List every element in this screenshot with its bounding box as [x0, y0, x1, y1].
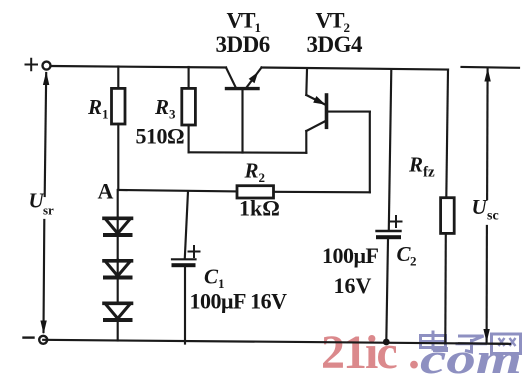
- label R1: [87, 95, 109, 122]
- svg-text:R: R: [154, 95, 169, 119]
- svg-text:3DG4: 3DG4: [307, 32, 364, 57]
- label R2: [244, 159, 266, 186]
- svg-text:sc: sc: [487, 209, 499, 224]
- resistor R2: [237, 186, 274, 198]
- output arrow U_sc: [459, 67, 519, 344]
- svg-text:R: R: [244, 159, 259, 183]
- wire VT2 base to R2: [369, 112, 371, 193]
- input terminal -: [24, 336, 48, 344]
- label Rfz: [408, 153, 435, 181]
- label C1: [204, 265, 225, 292]
- capacitor C2: [376, 70, 401, 343]
- node A: [118, 190, 237, 191]
- svg-text:100μF 16V: 100μF 16V: [190, 289, 288, 314]
- svg-text:sr: sr: [43, 203, 54, 218]
- diode VD2: [104, 260, 132, 303]
- label C2 plus: [391, 216, 402, 227]
- svg-text:U: U: [472, 195, 489, 219]
- diode VD1: [104, 218, 132, 260]
- svg-text:A: A: [98, 179, 114, 204]
- wire bottom rail: [43, 340, 510, 344]
- svg-text:C: C: [204, 265, 219, 289]
- svg-text:16V: 16V: [334, 273, 372, 298]
- transistor VT2: [306, 70, 370, 153]
- svg-text:510Ω: 510Ω: [136, 124, 185, 149]
- capacitor C1: [172, 191, 196, 343]
- svg-text:3: 3: [169, 107, 176, 122]
- resistor Rfz: [441, 70, 455, 344]
- label C2 value: [322, 243, 378, 298]
- wire R2 to VT2 base corner: [274, 191, 370, 194]
- label C2: [397, 242, 417, 269]
- wire R3 bottom to VT2 collector: [189, 151, 307, 154]
- svg-text:2: 2: [410, 254, 417, 269]
- junction C2 bottom: [383, 339, 390, 346]
- resistor R3: [182, 67, 196, 152]
- transistor VT1: [226, 68, 262, 153]
- label U_sr: [29, 189, 55, 218]
- diode VD3: [104, 303, 132, 340]
- svg-text:R: R: [408, 153, 423, 177]
- watermark 21ic.com dianziwang: [321, 326, 522, 381]
- label U_sc: [472, 195, 499, 224]
- svg-text:R: R: [87, 95, 102, 119]
- resistor R1: [112, 67, 126, 191]
- svg-text:VT: VT: [227, 8, 256, 33]
- label VT1: [227, 8, 262, 36]
- svg-text:fz: fz: [423, 165, 435, 181]
- input terminal +: [26, 59, 51, 71]
- wire node A to diodes: [117, 190, 119, 218]
- label VT2: [316, 8, 351, 36]
- source arrow U_sr: [40, 72, 49, 335]
- label C1 plus: [189, 246, 200, 257]
- svg-text:1: 1: [102, 107, 109, 122]
- svg-text:2: 2: [259, 170, 266, 185]
- svg-text:3DD6: 3DD6: [216, 32, 270, 57]
- svg-text:1kΩ: 1kΩ: [239, 196, 280, 221]
- wire top rail right: [262, 68, 449, 70]
- svg-text:.: .: [408, 326, 420, 379]
- svg-text:100μF: 100μF: [322, 243, 378, 268]
- wire top rail left: [51, 66, 226, 68]
- svg-text:VT: VT: [316, 8, 345, 33]
- label R3: [154, 95, 176, 122]
